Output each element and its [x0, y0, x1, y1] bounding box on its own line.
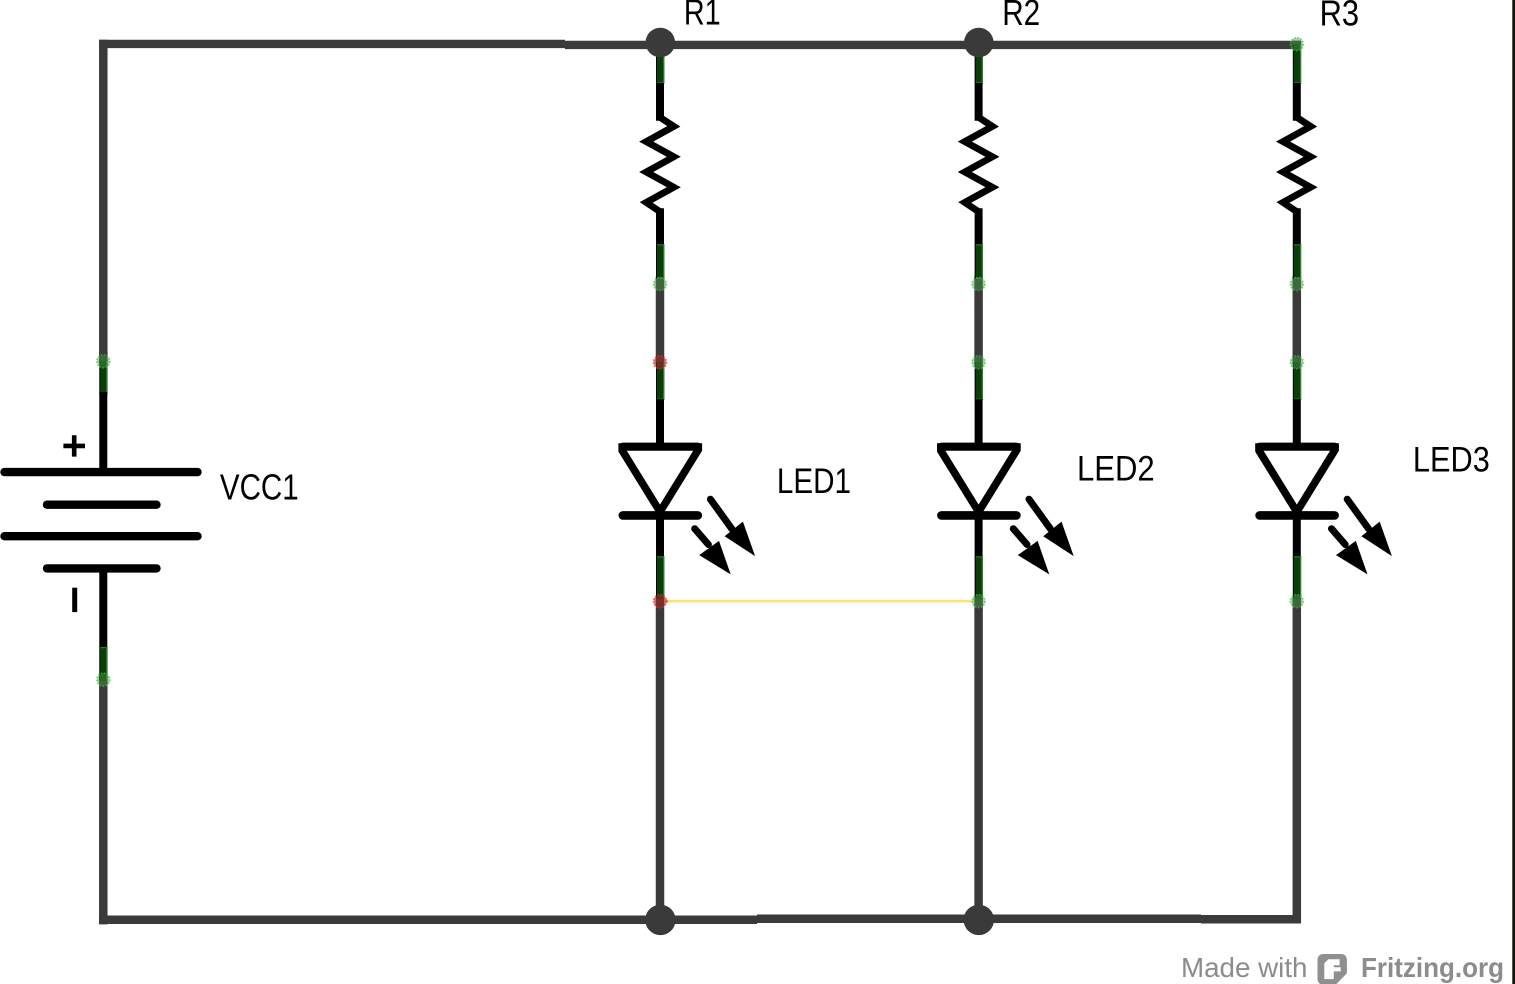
- connector ring: LED2 cathode: [972, 595, 985, 608]
- battery plus sign: [63, 435, 85, 456]
- wire: LED2 to bottom net: [974, 598, 983, 924]
- wire: right vertical from top wire end down to R3: [1293, 41, 1302, 49]
- connector ring: LED1 cathode (red): [654, 595, 667, 608]
- connector ring: battery -: [97, 673, 110, 686]
- connector ring: R3 top: [1290, 38, 1303, 51]
- wire: yellow ratsnest endpoint marker: [665, 600, 668, 603]
- wire: R3 resistor to LED3: [1293, 276, 1302, 364]
- connector ring: LED2 anode: [972, 356, 985, 369]
- svg-text:LED2: LED2: [1077, 449, 1155, 489]
- svg-text:LED1: LED1: [777, 461, 851, 501]
- connector ring: battery +: [97, 355, 110, 368]
- svg-text:R3: R3: [1320, 0, 1360, 33]
- connector ring: R2 bottom: [972, 278, 985, 291]
- wire: left vertical from top corner to battery +: [99, 40, 108, 363]
- svg-text:Made with: Made with: [1181, 952, 1308, 983]
- footer: Fritzing logo: [1318, 954, 1347, 984]
- LED LED2: [939, 362, 1074, 598]
- wire: top net, right segment: [565, 41, 1301, 49]
- junction: bottom node LED2: [964, 905, 994, 935]
- resistor R3: [1283, 44, 1311, 278]
- wire: LED1 to bottom net: [656, 598, 665, 924]
- resistor R2: [965, 44, 993, 278]
- wire: R1 resistor to LED1: [656, 276, 665, 364]
- junction: top node R2: [964, 28, 994, 58]
- svg-text:LED3: LED3: [1413, 440, 1490, 480]
- svg-text:R1: R1: [684, 0, 721, 33]
- connector ring: LED3 anode: [1290, 356, 1303, 369]
- battery VCC1: [5, 361, 198, 681]
- wire: top net, left segment: [99, 40, 565, 48]
- wire: yellow ratsnest LED1 to LED2: [666, 600, 973, 603]
- svg-text:Fritzing.org: Fritzing.org: [1361, 952, 1504, 983]
- border: right edge: [1512, 0, 1515, 984]
- LED LED3: [1257, 362, 1392, 598]
- svg-text:VCC1: VCC1: [220, 466, 299, 507]
- connector ring: R1 bottom: [654, 278, 667, 291]
- connector ring: R3 bottom: [1290, 278, 1303, 291]
- LED LED1: [620, 362, 755, 598]
- battery minus sign: [72, 588, 77, 612]
- junction: bottom node LED1: [645, 905, 675, 935]
- connector ring: LED3 cathode: [1290, 595, 1303, 608]
- wire: bottom net segment 2: [757, 915, 1201, 924]
- junction: top node R1: [646, 28, 676, 58]
- wire: left vertical from battery - to bottom corner: [99, 676, 108, 924]
- wire: LED3 to bottom net: [1293, 598, 1302, 924]
- wire: bottom net segment 3: [1201, 915, 1301, 924]
- svg-text:R2: R2: [1002, 0, 1040, 33]
- wire: bottom net segment 1: [99, 916, 757, 925]
- resistor R1: [646, 44, 674, 278]
- wire: R2 resistor to LED2: [974, 276, 983, 364]
- connector ring: LED1 anode (red): [654, 356, 667, 369]
